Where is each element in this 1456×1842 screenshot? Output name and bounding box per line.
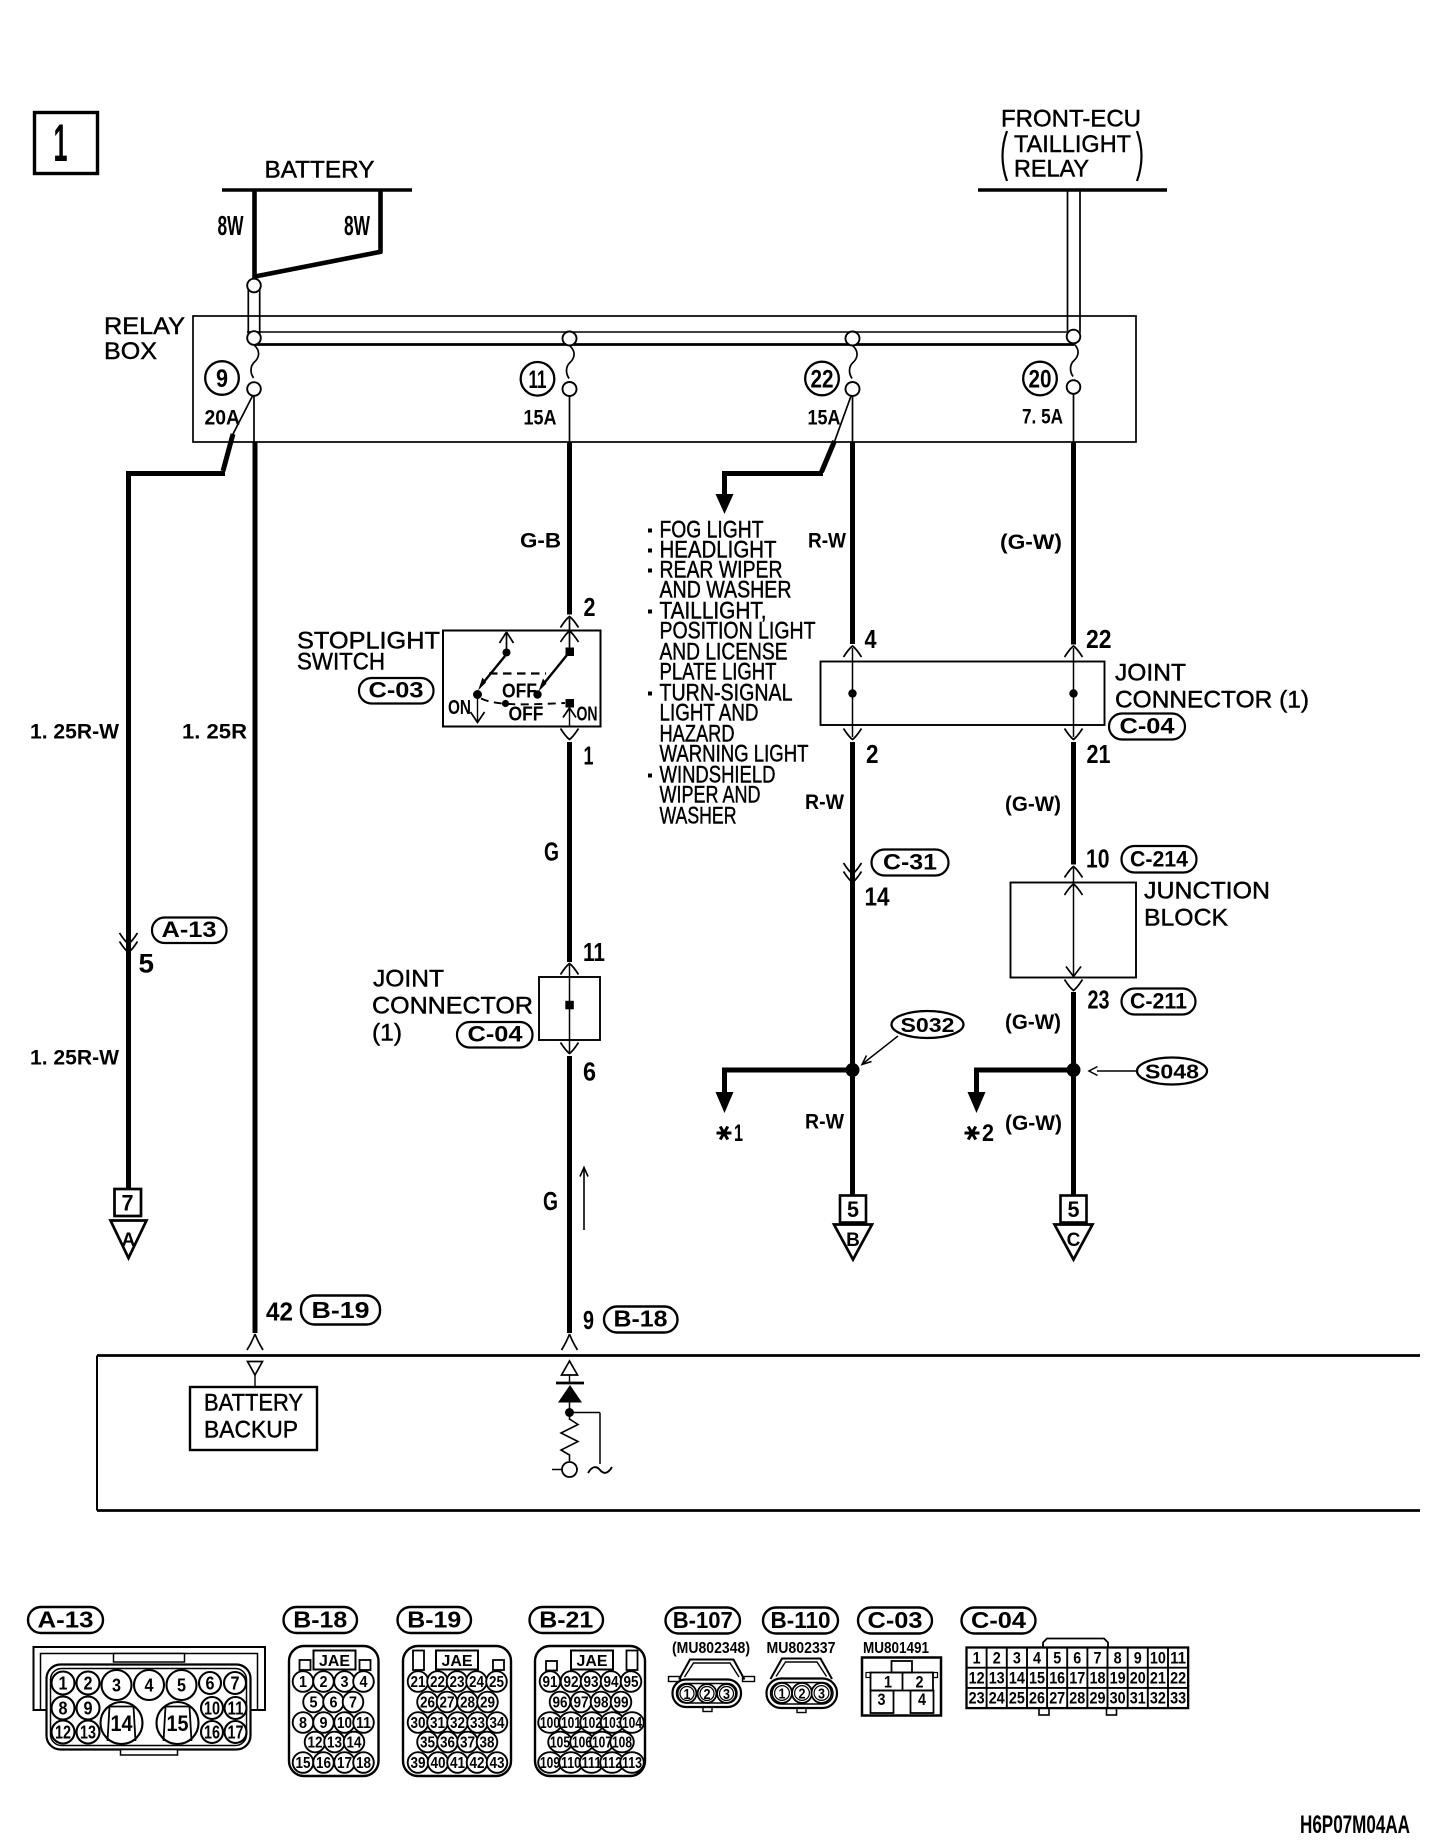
svg-text:A-13: A-13	[162, 917, 217, 942]
svg-text:G: G	[543, 1186, 558, 1216]
svg-text:10: 10	[1150, 1649, 1166, 1667]
svg-text:100: 100	[540, 1715, 560, 1732]
svg-text:SWITCH: SWITCH	[297, 649, 385, 676]
svg-text:1: 1	[299, 1674, 307, 1691]
svg-text:5: 5	[847, 1197, 859, 1222]
svg-text:23: 23	[1088, 985, 1110, 1015]
svg-text:WASHER: WASHER	[660, 803, 737, 830]
svg-text:2: 2	[584, 592, 596, 622]
svg-text:99: 99	[614, 1695, 629, 1712]
svg-text:23: 23	[969, 1690, 985, 1708]
svg-text:16: 16	[204, 1723, 220, 1743]
svg-text:C-03: C-03	[868, 1607, 923, 1633]
svg-text:(1): (1)	[372, 1020, 402, 1047]
svg-text:1: 1	[59, 1674, 68, 1694]
svg-text:6: 6	[206, 1674, 215, 1694]
svg-text:104: 104	[622, 1715, 642, 1732]
svg-text:JAE: JAE	[442, 1653, 473, 1670]
svg-text:B-19: B-19	[312, 1297, 370, 1323]
svg-text:107: 107	[592, 1735, 612, 1752]
svg-text:JOINT: JOINT	[1115, 660, 1186, 687]
svg-text:9: 9	[1134, 1649, 1142, 1667]
svg-text:C-31: C-31	[883, 850, 937, 875]
svg-text:109: 109	[540, 1755, 560, 1772]
svg-text:1: 1	[684, 1687, 691, 1703]
svg-text:11: 11	[583, 937, 605, 967]
svg-text:3: 3	[112, 1676, 121, 1696]
svg-text:2: 2	[320, 1674, 328, 1691]
svg-text:(G-W): (G-W)	[1005, 793, 1061, 816]
svg-text:98: 98	[594, 1695, 609, 1712]
svg-text:H6P07M04AA: H6P07M04AA	[1300, 1811, 1410, 1839]
svg-text:A: A	[122, 1230, 136, 1251]
svg-text:15: 15	[167, 1711, 189, 1736]
svg-text:33: 33	[1170, 1690, 1186, 1708]
svg-text:101: 101	[561, 1715, 581, 1732]
svg-text:1. 25R-W: 1. 25R-W	[30, 1047, 119, 1070]
svg-text:7. 5A: 7. 5A	[1022, 406, 1063, 429]
svg-text:3: 3	[1013, 1649, 1021, 1667]
svg-text:C-04: C-04	[1120, 714, 1176, 739]
svg-text:29: 29	[480, 1695, 495, 1712]
svg-text:B: B	[846, 1230, 860, 1251]
svg-text:32: 32	[450, 1715, 465, 1732]
svg-text:R-W: R-W	[808, 530, 846, 553]
svg-text:1: 1	[734, 1120, 743, 1147]
svg-text:26: 26	[1029, 1690, 1045, 1708]
svg-text:5: 5	[1068, 1197, 1080, 1222]
svg-text:30: 30	[1110, 1690, 1126, 1708]
svg-text:2: 2	[866, 739, 879, 769]
svg-text:C-211: C-211	[1130, 989, 1187, 1014]
svg-text:BACKUP: BACKUP	[204, 1417, 298, 1444]
svg-text:14: 14	[111, 1711, 134, 1736]
svg-text:3: 3	[341, 1674, 349, 1691]
svg-text:14: 14	[865, 882, 890, 912]
svg-text:14: 14	[347, 1735, 362, 1752]
svg-text:42: 42	[470, 1755, 485, 1772]
svg-text:23: 23	[450, 1674, 465, 1691]
svg-text:38: 38	[480, 1735, 495, 1752]
svg-text:(G-W): (G-W)	[1005, 1011, 1061, 1034]
svg-text:20: 20	[1130, 1670, 1146, 1688]
svg-text:13: 13	[989, 1670, 1005, 1688]
svg-text:102: 102	[582, 1715, 602, 1732]
svg-text:31: 31	[1130, 1690, 1146, 1708]
svg-text:21: 21	[1087, 739, 1111, 769]
svg-text:27: 27	[440, 1695, 455, 1712]
svg-text:15: 15	[296, 1755, 311, 1772]
svg-text:B-110: B-110	[771, 1607, 831, 1633]
svg-text:93: 93	[584, 1674, 599, 1691]
svg-text:3: 3	[818, 1687, 825, 1703]
svg-text:C-214: C-214	[1130, 847, 1188, 872]
svg-text:17: 17	[337, 1755, 352, 1772]
svg-text:RELAY: RELAY	[1014, 156, 1089, 183]
svg-text:41: 41	[450, 1755, 465, 1772]
svg-text:106: 106	[572, 1735, 592, 1752]
svg-text:9: 9	[84, 1699, 93, 1719]
svg-text:110: 110	[561, 1755, 581, 1772]
svg-text:B-107: B-107	[673, 1607, 733, 1633]
svg-text:31: 31	[430, 1715, 445, 1732]
svg-text:39: 39	[411, 1755, 426, 1772]
svg-text:20A: 20A	[205, 407, 241, 430]
svg-text:4: 4	[1033, 1649, 1042, 1667]
svg-text:11: 11	[356, 1715, 371, 1732]
svg-text:C-03: C-03	[369, 678, 424, 703]
svg-text:3: 3	[878, 1691, 886, 1709]
svg-text:7: 7	[122, 1191, 134, 1216]
svg-text:24: 24	[989, 1690, 1006, 1708]
svg-text:2: 2	[799, 1687, 806, 1703]
svg-text:8W: 8W	[218, 210, 244, 241]
svg-text:27: 27	[1049, 1690, 1065, 1708]
svg-text:8W: 8W	[344, 210, 370, 241]
svg-text:7: 7	[349, 1695, 357, 1712]
svg-text:A-13: A-13	[38, 1607, 94, 1633]
svg-text:42: 42	[266, 1297, 293, 1327]
svg-text:11: 11	[1170, 1649, 1186, 1667]
svg-text:JAE: JAE	[577, 1653, 608, 1670]
svg-text:24: 24	[469, 1674, 484, 1691]
svg-text:43: 43	[490, 1755, 505, 1772]
svg-text:22: 22	[1170, 1670, 1186, 1688]
svg-text:37: 37	[460, 1735, 475, 1752]
svg-text:MU801491: MU801491	[863, 1640, 929, 1657]
svg-text:2: 2	[982, 1120, 994, 1147]
svg-text:7: 7	[231, 1674, 240, 1694]
svg-text:CONNECTOR: CONNECTOR	[372, 993, 533, 1020]
svg-text:MU802337: MU802337	[767, 1640, 836, 1657]
svg-text:16: 16	[1049, 1670, 1065, 1688]
svg-text:2: 2	[704, 1687, 711, 1703]
svg-text:28: 28	[1069, 1690, 1085, 1708]
svg-text:96: 96	[553, 1695, 568, 1712]
svg-text:34: 34	[490, 1715, 505, 1732]
svg-text:2: 2	[84, 1674, 93, 1694]
svg-text:TAILLIGHT: TAILLIGHT	[1014, 131, 1131, 158]
svg-text:5: 5	[177, 1676, 186, 1696]
svg-text:1: 1	[973, 1649, 981, 1667]
svg-text:21: 21	[1150, 1670, 1166, 1688]
svg-text:11: 11	[228, 1699, 244, 1719]
svg-text:1: 1	[584, 741, 594, 771]
svg-text:5: 5	[1053, 1649, 1061, 1667]
svg-text:10: 10	[1086, 844, 1110, 874]
svg-text:10: 10	[337, 1715, 352, 1732]
svg-text:CONNECTOR (1): CONNECTOR (1)	[1115, 687, 1309, 714]
svg-text:22: 22	[430, 1674, 445, 1691]
svg-text:36: 36	[440, 1735, 455, 1752]
svg-text:1. 25R-W: 1. 25R-W	[30, 721, 119, 744]
svg-text:G: G	[544, 837, 559, 867]
svg-text:10: 10	[204, 1699, 220, 1719]
svg-text:OFF: OFF	[509, 704, 544, 726]
svg-text:12: 12	[55, 1723, 71, 1743]
svg-text:94: 94	[604, 1674, 619, 1691]
svg-text:9: 9	[216, 365, 228, 393]
svg-text:(G-W): (G-W)	[1000, 531, 1062, 554]
svg-text:8: 8	[299, 1715, 307, 1732]
svg-text:29: 29	[1090, 1690, 1106, 1708]
svg-text:30: 30	[411, 1715, 426, 1732]
svg-text:JOINT: JOINT	[373, 966, 444, 993]
svg-text:BATTERY: BATTERY	[204, 1390, 303, 1417]
svg-text:18: 18	[356, 1755, 371, 1772]
svg-text:B-18: B-18	[614, 1306, 668, 1332]
svg-text:35: 35	[420, 1735, 435, 1752]
svg-text:92: 92	[564, 1674, 579, 1691]
svg-text:108: 108	[612, 1735, 632, 1752]
svg-text:25: 25	[489, 1674, 504, 1691]
svg-text:OFF: OFF	[502, 681, 537, 703]
svg-text:6: 6	[330, 1695, 338, 1712]
svg-text:21: 21	[411, 1674, 426, 1691]
svg-text:6: 6	[1073, 1649, 1081, 1667]
svg-text:8: 8	[59, 1699, 68, 1719]
svg-text:S032: S032	[901, 1014, 955, 1037]
svg-text:BLOCK: BLOCK	[1144, 905, 1229, 932]
svg-text:JAE: JAE	[319, 1653, 350, 1670]
svg-text:28: 28	[460, 1695, 475, 1712]
svg-text:4: 4	[918, 1691, 927, 1709]
svg-text:7: 7	[1094, 1649, 1102, 1667]
svg-text:15A: 15A	[524, 407, 557, 430]
svg-text:4: 4	[360, 1674, 368, 1691]
svg-text:12: 12	[969, 1670, 985, 1688]
svg-text:ON: ON	[577, 704, 598, 726]
svg-text:B-19: B-19	[407, 1607, 461, 1633]
svg-text:25: 25	[1009, 1690, 1025, 1708]
svg-text:FRONT-ECU: FRONT-ECU	[1001, 106, 1141, 133]
svg-text:BOX: BOX	[104, 338, 157, 365]
svg-text:22: 22	[1086, 624, 1112, 654]
svg-text:19: 19	[1110, 1670, 1126, 1688]
svg-text:5: 5	[310, 1695, 318, 1712]
svg-text:1: 1	[884, 1674, 892, 1692]
svg-text:BATTERY: BATTERY	[265, 157, 375, 184]
svg-text:33: 33	[470, 1715, 485, 1732]
svg-text:1: 1	[54, 114, 68, 173]
svg-text:5: 5	[139, 949, 155, 979]
svg-text:17: 17	[1069, 1670, 1085, 1688]
svg-text:B-21: B-21	[539, 1607, 593, 1633]
svg-text:6: 6	[583, 1057, 596, 1087]
svg-text:9: 9	[320, 1715, 328, 1732]
svg-text:JUNCTION: JUNCTION	[1144, 878, 1270, 905]
svg-text:B-18: B-18	[293, 1607, 347, 1633]
svg-text:18: 18	[1090, 1670, 1106, 1688]
svg-text:RELAY: RELAY	[104, 313, 185, 340]
svg-text:ON: ON	[448, 697, 471, 719]
svg-text:20: 20	[1029, 366, 1052, 394]
svg-text:8: 8	[1114, 1649, 1122, 1667]
svg-text:111: 111	[582, 1755, 602, 1772]
svg-text:40: 40	[431, 1755, 446, 1772]
svg-text:1: 1	[779, 1687, 786, 1703]
svg-text:32: 32	[1150, 1690, 1166, 1708]
svg-text:3: 3	[723, 1687, 730, 1703]
svg-text:22: 22	[811, 366, 834, 394]
svg-text:95: 95	[624, 1674, 639, 1691]
svg-text:C-04: C-04	[971, 1607, 1026, 1633]
svg-text:91: 91	[543, 1674, 558, 1691]
svg-text:1. 25R: 1. 25R	[182, 721, 247, 744]
svg-text:13: 13	[327, 1735, 342, 1752]
svg-text:14: 14	[1009, 1670, 1026, 1688]
svg-text:16: 16	[316, 1755, 331, 1772]
svg-text:4: 4	[865, 624, 877, 654]
svg-text:17: 17	[228, 1723, 244, 1743]
svg-text:113: 113	[622, 1755, 642, 1772]
svg-text:15A: 15A	[808, 407, 841, 430]
svg-text:97: 97	[574, 1695, 589, 1712]
svg-text:13: 13	[80, 1723, 96, 1743]
svg-text:9: 9	[583, 1305, 594, 1335]
svg-text:(MU802348): (MU802348)	[672, 1640, 750, 1657]
svg-text:R-W: R-W	[805, 791, 844, 814]
svg-text:105: 105	[550, 1735, 570, 1752]
svg-text:15: 15	[1029, 1670, 1045, 1688]
svg-text:2: 2	[916, 1674, 924, 1692]
svg-text:2: 2	[993, 1649, 1001, 1667]
svg-text:11: 11	[529, 366, 547, 394]
svg-text:112: 112	[602, 1755, 622, 1772]
svg-text:G-B: G-B	[520, 530, 561, 553]
svg-text:26: 26	[420, 1695, 435, 1712]
svg-text:C-04: C-04	[468, 1022, 524, 1047]
svg-text:12: 12	[308, 1735, 323, 1752]
svg-text:S048: S048	[1145, 1061, 1199, 1084]
svg-text:R-W: R-W	[805, 1111, 844, 1134]
svg-text:(G-W): (G-W)	[1005, 1112, 1062, 1135]
svg-text:4: 4	[145, 1676, 154, 1696]
svg-text:C: C	[1067, 1230, 1081, 1251]
